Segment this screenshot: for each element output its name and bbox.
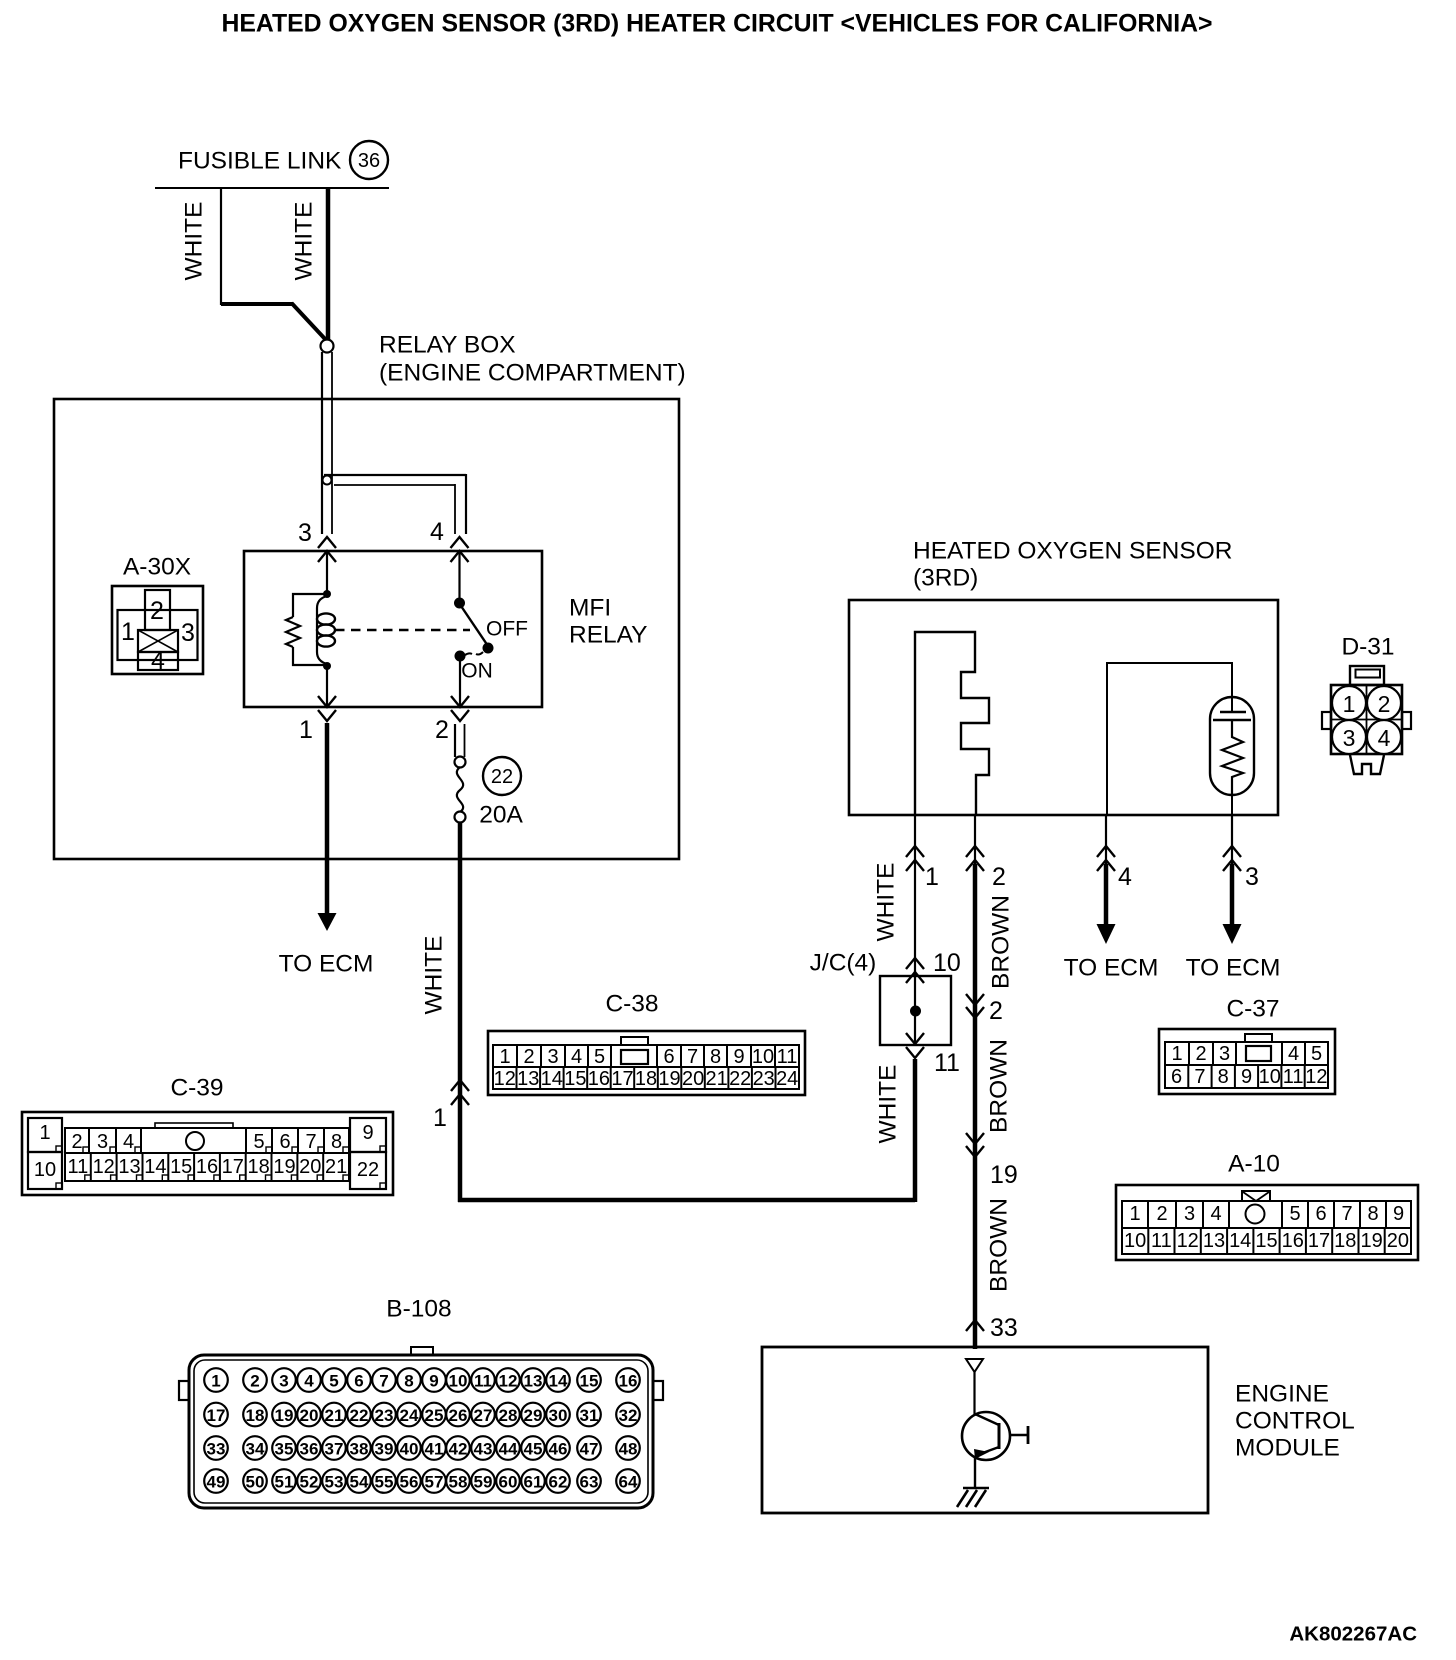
svg-text:11: 11: [1283, 1066, 1304, 1088]
svg-text:WHITE: WHITE: [421, 936, 448, 1015]
heater to pin 3: [1231, 795, 1233, 815]
svg-text:3: 3: [547, 1046, 558, 1068]
svg-text:CONTROL: CONTROL: [1235, 1408, 1355, 1435]
svg-text:ENGINE: ENGINE: [1235, 1381, 1329, 1408]
svg-text:3: 3: [1184, 1203, 1195, 1225]
svg-text:3: 3: [1219, 1043, 1230, 1065]
svg-text:C-39: C-39: [170, 1075, 223, 1102]
svg-text:1: 1: [1129, 1203, 1140, 1225]
svg-text:7: 7: [1194, 1066, 1205, 1088]
svg-text:19: 19: [658, 1068, 680, 1090]
heater branch wiring: [1107, 663, 1232, 815]
svg-text:35: 35: [275, 1440, 294, 1459]
C-39 circle key: [186, 1132, 204, 1150]
B-108 pin circles: [204, 1368, 228, 1392]
svg-text:5: 5: [253, 1131, 264, 1153]
svg-text:1: 1: [925, 863, 939, 891]
C-39 end cell 9: [350, 1118, 386, 1152]
svg-text:5: 5: [1289, 1203, 1300, 1225]
svg-text:1: 1: [1343, 691, 1356, 717]
wire pin3 to relay coil: [326, 551, 328, 594]
svg-text:5: 5: [329, 1372, 338, 1391]
resistor zigzag: [286, 617, 300, 647]
svg-text:1: 1: [1171, 1043, 1182, 1065]
svg-text:31: 31: [580, 1406, 599, 1425]
J/C(4) box: [880, 976, 951, 1045]
svg-text:1: 1: [211, 1372, 220, 1391]
ground symbol: [963, 1487, 989, 1489]
svg-text:16: 16: [588, 1068, 610, 1090]
pin 3 chevrons: [318, 537, 336, 548]
svg-text:10: 10: [34, 1159, 56, 1181]
svg-text:28: 28: [499, 1406, 518, 1425]
junction node circle on pin3 wire: [323, 476, 332, 485]
relay coil: [317, 596, 327, 664]
svg-text:3: 3: [181, 619, 195, 647]
ECM pin 33 chevron: [966, 1320, 984, 1331]
coil top junction dot: [323, 590, 331, 598]
svg-text:43: 43: [474, 1440, 493, 1459]
svg-text:38: 38: [350, 1440, 369, 1459]
svg-text:19: 19: [990, 1161, 1018, 1189]
svg-text:A-30X: A-30X: [123, 554, 191, 581]
svg-text:44: 44: [499, 1440, 518, 1459]
svg-text:18: 18: [1334, 1230, 1356, 1252]
svg-text:WHITE: WHITE: [291, 202, 318, 281]
D-31 top tab: [1350, 666, 1384, 685]
switch blade: [461, 606, 488, 646]
connector A-30X body: [112, 586, 203, 674]
svg-text:11: 11: [777, 1046, 798, 1068]
fuse element wavy: [457, 767, 463, 812]
J/C pin 11 chevrons: [906, 1033, 924, 1044]
svg-text:34: 34: [246, 1440, 265, 1459]
sensor pin 2 wire: [974, 815, 976, 866]
svg-text:TO ECM: TO ECM: [1186, 955, 1281, 982]
svg-text:2: 2: [523, 1046, 534, 1068]
svg-text:23: 23: [375, 1406, 394, 1425]
C-37 lock tab: [1245, 1034, 1272, 1042]
svg-text:18: 18: [246, 1406, 265, 1425]
svg-text:A-10: A-10: [1228, 1151, 1280, 1178]
C-39 notch marks: [83, 1147, 89, 1153]
heated oxygen sensor box: [849, 600, 1278, 815]
svg-text:60: 60: [499, 1473, 518, 1492]
svg-text:15: 15: [580, 1372, 599, 1391]
wire coil to pin 1: [326, 666, 328, 707]
svg-text:4: 4: [151, 647, 165, 675]
svg-text:29: 29: [524, 1406, 543, 1425]
svg-text:36: 36: [358, 150, 380, 172]
svg-text:4: 4: [1118, 863, 1132, 891]
wire double-line bridge to pin 4: [324, 474, 466, 476]
fuse terminal circle bottom: [455, 812, 466, 823]
fuse terminal circle top: [455, 757, 466, 768]
svg-text:8: 8: [404, 1372, 413, 1391]
svg-text:AK802267AC: AK802267AC: [1289, 1623, 1417, 1646]
J/C pin 10 chevrons: [906, 958, 924, 969]
sensor element comb: [915, 632, 989, 815]
svg-text:4: 4: [304, 1372, 314, 1391]
C-38 lock tab: [621, 1037, 648, 1045]
svg-text:2: 2: [250, 1372, 259, 1391]
svg-text:51: 51: [275, 1473, 294, 1492]
svg-text:7: 7: [379, 1372, 388, 1391]
svg-text:23: 23: [753, 1068, 775, 1090]
arrowhead to ECM (pin 3): [1223, 924, 1242, 944]
svg-text:8: 8: [710, 1046, 721, 1068]
C-39 cell grid bottom row: [65, 1153, 349, 1181]
svg-text:HEATED OXYGEN SENSOR (3RD) HEA: HEATED OXYGEN SENSOR (3RD) HEATER CIRCUI…: [221, 11, 1212, 38]
svg-text:14: 14: [549, 1372, 568, 1391]
sensor pin 3 wire: [1231, 815, 1233, 866]
wire ON contact to pin 2: [459, 660, 461, 707]
svg-text:4: 4: [1378, 725, 1391, 751]
dashed actuation line: [335, 629, 470, 631]
svg-text:57: 57: [425, 1473, 444, 1492]
svg-text:27: 27: [474, 1406, 493, 1425]
svg-text:1: 1: [39, 1122, 50, 1144]
svg-text:58: 58: [449, 1473, 468, 1492]
svg-text:46: 46: [549, 1440, 568, 1459]
A-10 lock tab: [1242, 1191, 1270, 1201]
svg-text:63: 63: [580, 1473, 599, 1492]
pin 1 chevrons: [318, 696, 336, 707]
svg-text:13: 13: [517, 1068, 539, 1090]
svg-text:64: 64: [619, 1473, 638, 1492]
svg-text:12: 12: [499, 1372, 518, 1391]
svg-text:MODULE: MODULE: [1235, 1435, 1340, 1462]
svg-text:12: 12: [494, 1068, 516, 1090]
svg-text:7: 7: [305, 1131, 316, 1153]
svg-text:3: 3: [279, 1372, 288, 1391]
svg-text:19: 19: [275, 1406, 294, 1425]
svg-text:C-38: C-38: [605, 991, 658, 1018]
C-39 top bar: [155, 1123, 233, 1128]
svg-text:20: 20: [682, 1068, 704, 1090]
C-38 cell grid: [493, 1045, 799, 1089]
C-39 body: [22, 1112, 393, 1195]
svg-text:11: 11: [934, 1049, 960, 1077]
svg-text:45: 45: [524, 1440, 543, 1459]
svg-text:2: 2: [1156, 1203, 1167, 1225]
svg-text:55: 55: [375, 1473, 394, 1492]
svg-text:53: 53: [325, 1473, 344, 1492]
svg-text:61: 61: [524, 1473, 543, 1492]
svg-text:WHITE: WHITE: [873, 863, 900, 942]
svg-text:MFI: MFI: [569, 595, 611, 622]
svg-text:4: 4: [123, 1131, 134, 1153]
svg-text:3: 3: [298, 519, 312, 547]
C-37 cell grid: [1165, 1042, 1328, 1088]
sensor pin 4 chevrons: [1097, 846, 1115, 857]
svg-text:4: 4: [571, 1046, 582, 1068]
svg-text:11: 11: [474, 1372, 492, 1391]
svg-text:62: 62: [549, 1473, 568, 1492]
svg-text:5: 5: [1311, 1043, 1322, 1065]
svg-text:4: 4: [1288, 1043, 1299, 1065]
fusible link bus bar: [155, 187, 389, 189]
svg-text:6: 6: [663, 1046, 674, 1068]
wire triangle to transistor: [973, 1372, 975, 1416]
relay box (engine compartment) outline: [54, 399, 679, 859]
svg-text:5: 5: [594, 1046, 605, 1068]
svg-text:21: 21: [705, 1068, 727, 1090]
svg-text:32: 32: [619, 1406, 638, 1425]
svg-text:20: 20: [300, 1406, 319, 1425]
svg-text:6: 6: [1315, 1203, 1326, 1225]
svg-text:12: 12: [1305, 1066, 1327, 1088]
svg-text:49: 49: [207, 1473, 226, 1492]
svg-text:10: 10: [1124, 1230, 1146, 1252]
svg-text:HEATED OXYGEN SENSOR: HEATED OXYGEN SENSOR: [913, 538, 1232, 565]
sensor pin 4 wire: [1105, 815, 1107, 866]
svg-text:15: 15: [1255, 1230, 1277, 1252]
svg-text:15: 15: [564, 1068, 586, 1090]
svg-text:(ENGINE COMPARTMENT): (ENGINE COMPARTMENT): [379, 360, 686, 387]
svg-text:10: 10: [1259, 1066, 1281, 1088]
svg-text:J/C(4): J/C(4): [810, 950, 877, 977]
transistor base lead: [1011, 1434, 1028, 1436]
svg-text:22: 22: [350, 1406, 369, 1425]
B-108 side tabs: [179, 1381, 190, 1400]
brown wire chevrons A-10 pin 19: [966, 1133, 984, 1144]
svg-text:1: 1: [121, 618, 135, 646]
svg-text:2: 2: [989, 997, 1003, 1025]
svg-text:8: 8: [1367, 1203, 1378, 1225]
svg-text:37: 37: [325, 1440, 344, 1459]
svg-text:42: 42: [449, 1440, 468, 1459]
svg-text:24: 24: [400, 1406, 419, 1425]
svg-text:6: 6: [1171, 1066, 1182, 1088]
transistor emitter to ground: [974, 1457, 976, 1488]
svg-text:OFF: OFF: [486, 618, 528, 641]
svg-text:41: 41: [425, 1440, 444, 1459]
transistor Q (ECM driver): [962, 1412, 1010, 1460]
svg-text:WHITE: WHITE: [875, 1065, 902, 1144]
svg-text:12: 12: [1177, 1230, 1199, 1252]
svg-text:33: 33: [207, 1440, 226, 1459]
svg-text:47: 47: [580, 1440, 599, 1459]
C-39 cell grid top row: [65, 1128, 349, 1153]
coil bottom junction dot: [323, 662, 331, 670]
C-37 body: [1159, 1029, 1335, 1094]
svg-text:19: 19: [1360, 1230, 1382, 1252]
svg-text:18: 18: [635, 1068, 657, 1090]
svg-text:14: 14: [541, 1068, 563, 1090]
J/C splice dot: [910, 1006, 921, 1017]
svg-text:9: 9: [1393, 1203, 1404, 1225]
wire elbow joining both white wires: [221, 302, 293, 306]
heater resistor zigzag: [1222, 720, 1243, 795]
C-38 pin 1 chevrons: [451, 1080, 469, 1091]
D-31 pin circles: [1332, 686, 1366, 720]
ON contact dot: [455, 651, 466, 662]
D-31 bottom latch: [1350, 755, 1384, 774]
C-38 body: [488, 1031, 805, 1095]
svg-text:2: 2: [71, 1131, 82, 1153]
svg-text:17: 17: [1308, 1230, 1330, 1252]
svg-text:50: 50: [246, 1473, 265, 1492]
heater plate upper: [1220, 711, 1246, 713]
svg-text:3: 3: [1245, 863, 1259, 891]
svg-text:BROWN: BROWN: [986, 1039, 1013, 1133]
svg-text:56: 56: [400, 1473, 419, 1492]
svg-text:10: 10: [449, 1372, 468, 1391]
svg-text:54: 54: [350, 1473, 369, 1492]
wire white right from fusible link: [326, 188, 331, 340]
OFF contact dot: [483, 643, 494, 654]
svg-text:40: 40: [400, 1440, 419, 1459]
svg-text:BROWN: BROWN: [988, 895, 1015, 989]
svg-text:20A: 20A: [479, 802, 523, 829]
svg-text:C-37: C-37: [1226, 996, 1279, 1023]
svg-text:2: 2: [1195, 1043, 1206, 1065]
engine control module box: [762, 1347, 1208, 1513]
C-39 end cell 1: [28, 1118, 62, 1152]
fuse number 22: [483, 757, 521, 795]
svg-text:30: 30: [549, 1406, 568, 1425]
svg-text:20: 20: [1387, 1230, 1409, 1252]
pin 4 chevrons: [451, 537, 469, 548]
connector A-30X keyway crossed box: [138, 630, 178, 652]
svg-text:9: 9: [429, 1372, 438, 1391]
svg-text:22: 22: [491, 766, 513, 788]
MFI relay box: [244, 551, 542, 707]
wire white left from fusible link: [220, 188, 222, 305]
fuse double-line lead: [454, 724, 456, 757]
svg-text:6: 6: [279, 1131, 290, 1153]
svg-text:9: 9: [362, 1122, 373, 1144]
svg-text:(3RD): (3RD): [913, 565, 978, 592]
svg-text:7: 7: [1341, 1203, 1352, 1225]
svg-text:24: 24: [776, 1068, 798, 1090]
D-31 body: [1331, 685, 1402, 754]
svg-text:WHITE: WHITE: [181, 202, 208, 281]
arrowhead to ECM left: [318, 913, 337, 931]
B-108 top tab: [411, 1347, 433, 1356]
svg-text:4: 4: [430, 518, 444, 546]
C-39 end cell 10: [28, 1152, 62, 1189]
svg-text:10: 10: [933, 949, 961, 977]
C-39 end cell 22: [350, 1152, 386, 1189]
svg-text:9: 9: [733, 1046, 744, 1068]
svg-text:D-31: D-31: [1341, 634, 1394, 661]
svg-text:1: 1: [299, 716, 313, 744]
svg-text:16: 16: [619, 1372, 638, 1391]
wire bottom run to J/C: [458, 1198, 915, 1203]
switch pivot dot: [454, 598, 465, 609]
arrowhead to ECM (pin 4): [1097, 924, 1116, 944]
wire double-line to MFI relay pin 3: [321, 352, 323, 534]
svg-text:7: 7: [687, 1046, 698, 1068]
svg-text:ON: ON: [461, 660, 493, 683]
svg-text:26: 26: [449, 1406, 468, 1425]
heater capsule: [1210, 697, 1254, 795]
svg-text:RELAY: RELAY: [569, 622, 648, 649]
wire fuse to white wire down: [458, 822, 463, 1202]
svg-text:10: 10: [752, 1046, 774, 1068]
sensor pin 2 chevrons: [966, 846, 984, 857]
svg-text:14: 14: [1229, 1230, 1251, 1252]
wire pin1 to ECM arrow: [325, 723, 330, 916]
svg-text:FUSIBLE LINK: FUSIBLE LINK: [178, 148, 342, 175]
svg-text:2: 2: [435, 716, 449, 744]
svg-text:22: 22: [729, 1068, 751, 1090]
svg-text:16: 16: [1282, 1230, 1304, 1252]
svg-text:22: 22: [357, 1159, 379, 1181]
A-10 body: [1116, 1185, 1418, 1260]
svg-text:59: 59: [474, 1473, 493, 1492]
svg-text:48: 48: [619, 1440, 638, 1459]
pin 2 chevrons: [451, 696, 469, 707]
fusible link number 36: [350, 141, 388, 179]
svg-text:13: 13: [524, 1372, 543, 1391]
svg-text:21: 21: [325, 1406, 344, 1425]
svg-text:BROWN: BROWN: [986, 1198, 1013, 1292]
A-10 circle key: [1246, 1205, 1265, 1224]
svg-text:11: 11: [1151, 1230, 1172, 1252]
svg-text:36: 36: [300, 1440, 319, 1459]
ECM internal supply triangle: [966, 1359, 983, 1372]
svg-text:33: 33: [990, 1314, 1018, 1342]
svg-text:RELAY BOX: RELAY BOX: [379, 332, 516, 359]
svg-text:8: 8: [331, 1131, 342, 1153]
svg-text:2: 2: [150, 597, 164, 625]
svg-text:3: 3: [97, 1131, 108, 1153]
svg-text:2: 2: [992, 863, 1006, 891]
svg-text:TO ECM: TO ECM: [279, 951, 374, 978]
svg-text:39: 39: [375, 1440, 394, 1459]
svg-text:17: 17: [611, 1068, 633, 1090]
A-10 cell grid: [1122, 1201, 1411, 1254]
sensor pin 1 chevrons: [906, 846, 924, 857]
svg-text:9: 9: [1241, 1066, 1252, 1088]
svg-text:B-108: B-108: [386, 1296, 451, 1323]
svg-text:3: 3: [1343, 725, 1356, 751]
sensor pin 1 wire: [914, 815, 916, 976]
svg-text:2: 2: [1378, 691, 1391, 717]
heater plate lower: [1213, 719, 1251, 721]
splice node at relay box entry: [321, 340, 334, 353]
svg-text:13: 13: [1203, 1230, 1225, 1252]
B-108 body: [189, 1355, 653, 1508]
svg-text:1: 1: [433, 1104, 447, 1132]
parallel resistor branch: [293, 594, 327, 617]
heater capsule inlet wire: [1231, 697, 1233, 712]
switch common from pin 4: [458, 551, 460, 603]
svg-text:TO ECM: TO ECM: [1064, 955, 1159, 982]
svg-text:6: 6: [354, 1372, 363, 1391]
svg-text:25: 25: [425, 1406, 444, 1425]
svg-text:4: 4: [1210, 1203, 1221, 1225]
D-31 side tabs: [1322, 712, 1331, 729]
svg-text:1: 1: [499, 1046, 510, 1068]
svg-text:8: 8: [1218, 1066, 1229, 1088]
J/C wire through: [914, 976, 916, 1045]
sensor pin 3 chevrons: [1223, 846, 1241, 857]
brown wire chevrons C-37 pin 2: [966, 994, 984, 1005]
svg-text:52: 52: [300, 1473, 319, 1492]
svg-text:17: 17: [207, 1406, 226, 1425]
